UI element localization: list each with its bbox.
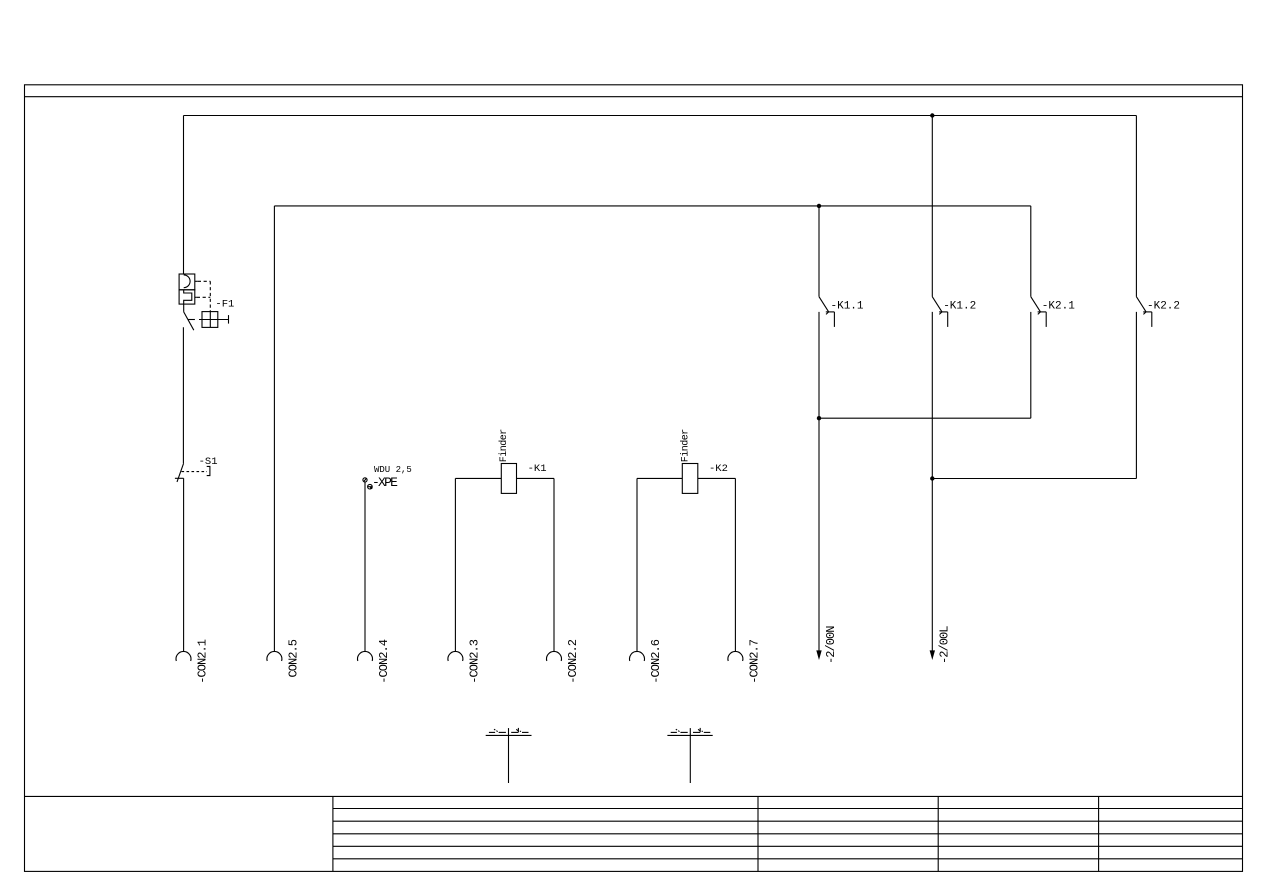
svg-text:-XPE: -XPE xyxy=(372,475,398,490)
svg-text:-K2.1: -K2.1 xyxy=(1042,300,1075,312)
svg-text:-2/00L: -2/00L xyxy=(938,626,952,664)
svg-text:-CON2.6: -CON2.6 xyxy=(649,639,663,684)
svg-text:-CON2.7: -CON2.7 xyxy=(747,639,761,684)
svg-text:-CON2.4: -CON2.4 xyxy=(377,639,391,684)
svg-text:-CON2.2: -CON2.2 xyxy=(566,639,580,684)
svg-text:-CON2.3: -CON2.3 xyxy=(467,639,481,684)
svg-text:-K1: -K1 xyxy=(528,463,547,475)
svg-text:-S1: -S1 xyxy=(199,456,218,468)
svg-text:-F1: -F1 xyxy=(215,299,234,311)
svg-text:-CON2.1: -CON2.1 xyxy=(196,639,210,684)
svg-text:-K2: -K2 xyxy=(709,463,728,475)
svg-text:WDU 2,5: WDU 2,5 xyxy=(374,465,412,475)
svg-text:-K1.1: -K1.1 xyxy=(831,300,864,312)
svg-text:CON2.5: CON2.5 xyxy=(286,639,300,677)
svg-text:-2/00N: -2/00N xyxy=(824,626,838,664)
svg-text:Finder: Finder xyxy=(680,429,692,463)
svg-text:-K1.2: -K1.2 xyxy=(943,300,976,312)
svg-text:-K2.2: -K2.2 xyxy=(1147,300,1180,312)
svg-text:Finder: Finder xyxy=(498,429,510,463)
